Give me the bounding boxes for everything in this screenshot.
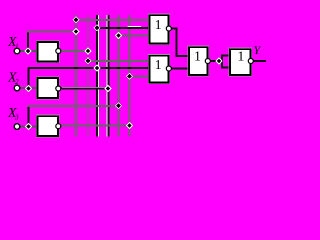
gate U5 NOR (IEC "1" box with bubble) bbox=[150, 56, 172, 83]
wire ~X1 inverter A output bbox=[61, 50, 90, 52]
terminal X2 input circle bbox=[14, 85, 20, 91]
wire X3 branch horizontal bbox=[28, 105, 119, 107]
svg-text:1: 1 bbox=[155, 17, 162, 32]
wire column C6 (~X3 net) bbox=[129, 15, 131, 137]
node diamond (97,27.75) bbox=[94, 25, 100, 31]
wire column C1 (X1 net) bbox=[75, 15, 77, 137]
node diamond (129.5,124.75) bbox=[127, 123, 133, 129]
wire ~X2 inverter B output bbox=[62, 87, 107, 89]
wire gate3 output bbox=[210, 60, 222, 62]
wire column C4 (~X2 net) bbox=[106, 15, 108, 137]
wire X3 branch vertical bbox=[28, 106, 30, 127]
wire X2 branch vertical bbox=[28, 68, 30, 89]
node diamond (76,19.75) bbox=[73, 17, 79, 23]
wire X2 input stub bbox=[20, 87, 37, 89]
inverter U2 (X2 NOT gate) bbox=[38, 78, 61, 98]
wire ~X3 inverter C output bbox=[61, 125, 130, 127]
wire column C2 (~X1 net) bbox=[87, 15, 89, 137]
wire gate1 output bbox=[171, 29, 189, 57]
inverter U1 (X1 NOT gate) bbox=[38, 42, 61, 62]
wire gate4 output (Y) bbox=[253, 60, 266, 62]
wire bus H2 gate1 input2 (X2) bbox=[128, 26, 142, 28]
node diamond (76,31.5) bbox=[73, 29, 79, 35]
wire column C5 (X3 net) bbox=[118, 15, 120, 137]
terminal X1 input circle bbox=[14, 48, 20, 54]
node diamond (28,51) bbox=[25, 48, 31, 54]
node diamond (108,88.5) bbox=[105, 86, 111, 92]
wire bus H4 gate2 input1 (~X1) bbox=[87, 60, 149, 62]
wire bus H1 gate1 input1 (X1) bbox=[75, 19, 149, 21]
wire X1 input stub bbox=[20, 50, 37, 52]
wire bus H3 gate1 input3 (X3) bbox=[118, 35, 150, 37]
wire column C3 (X2 net) bbox=[97, 15, 99, 137]
node diamond (28.5,88.5) bbox=[26, 86, 32, 92]
wire bus H5 gate2 input2 (X2 branch) bbox=[28, 67, 149, 69]
node diamond (219,61) bbox=[216, 58, 222, 64]
wire gate4 input fanout branch bbox=[221, 56, 223, 68]
wire bus H6 gate2 input3 (~X3) bbox=[129, 75, 150, 77]
svg-text:1: 1 bbox=[155, 57, 162, 72]
wire gate2 output bbox=[171, 68, 189, 70]
node diamond (97,68) bbox=[94, 65, 100, 71]
node diamond (28.5,124.75) bbox=[26, 124, 32, 130]
wire X1 branch vertical bbox=[27, 31, 29, 51]
wire X3 input stub bbox=[20, 126, 37, 128]
node diamond (129.5,76.25) bbox=[127, 73, 133, 79]
gate U7 NOT (IEC "1" box with bubble) bbox=[230, 48, 253, 74]
node diamond (87.5,51) bbox=[85, 48, 91, 54]
wire X1 branch horizontal bbox=[27, 31, 76, 33]
node diamond (118.5,105.75) bbox=[116, 103, 122, 109]
svg-text:1: 1 bbox=[238, 48, 245, 63]
gate U6 NOR (IEC "1" box with bubble) bbox=[189, 47, 210, 75]
gate U4 NOR (IEC "1" box with bubble) bbox=[150, 15, 172, 43]
inverter U3 (X3 NOT gate) bbox=[38, 116, 61, 136]
node diamond (118.5,35.5) bbox=[116, 33, 122, 39]
node diamond (87.5,60.75) bbox=[85, 58, 91, 64]
terminal X3 input circle bbox=[14, 124, 20, 130]
svg-text:1: 1 bbox=[194, 49, 201, 64]
